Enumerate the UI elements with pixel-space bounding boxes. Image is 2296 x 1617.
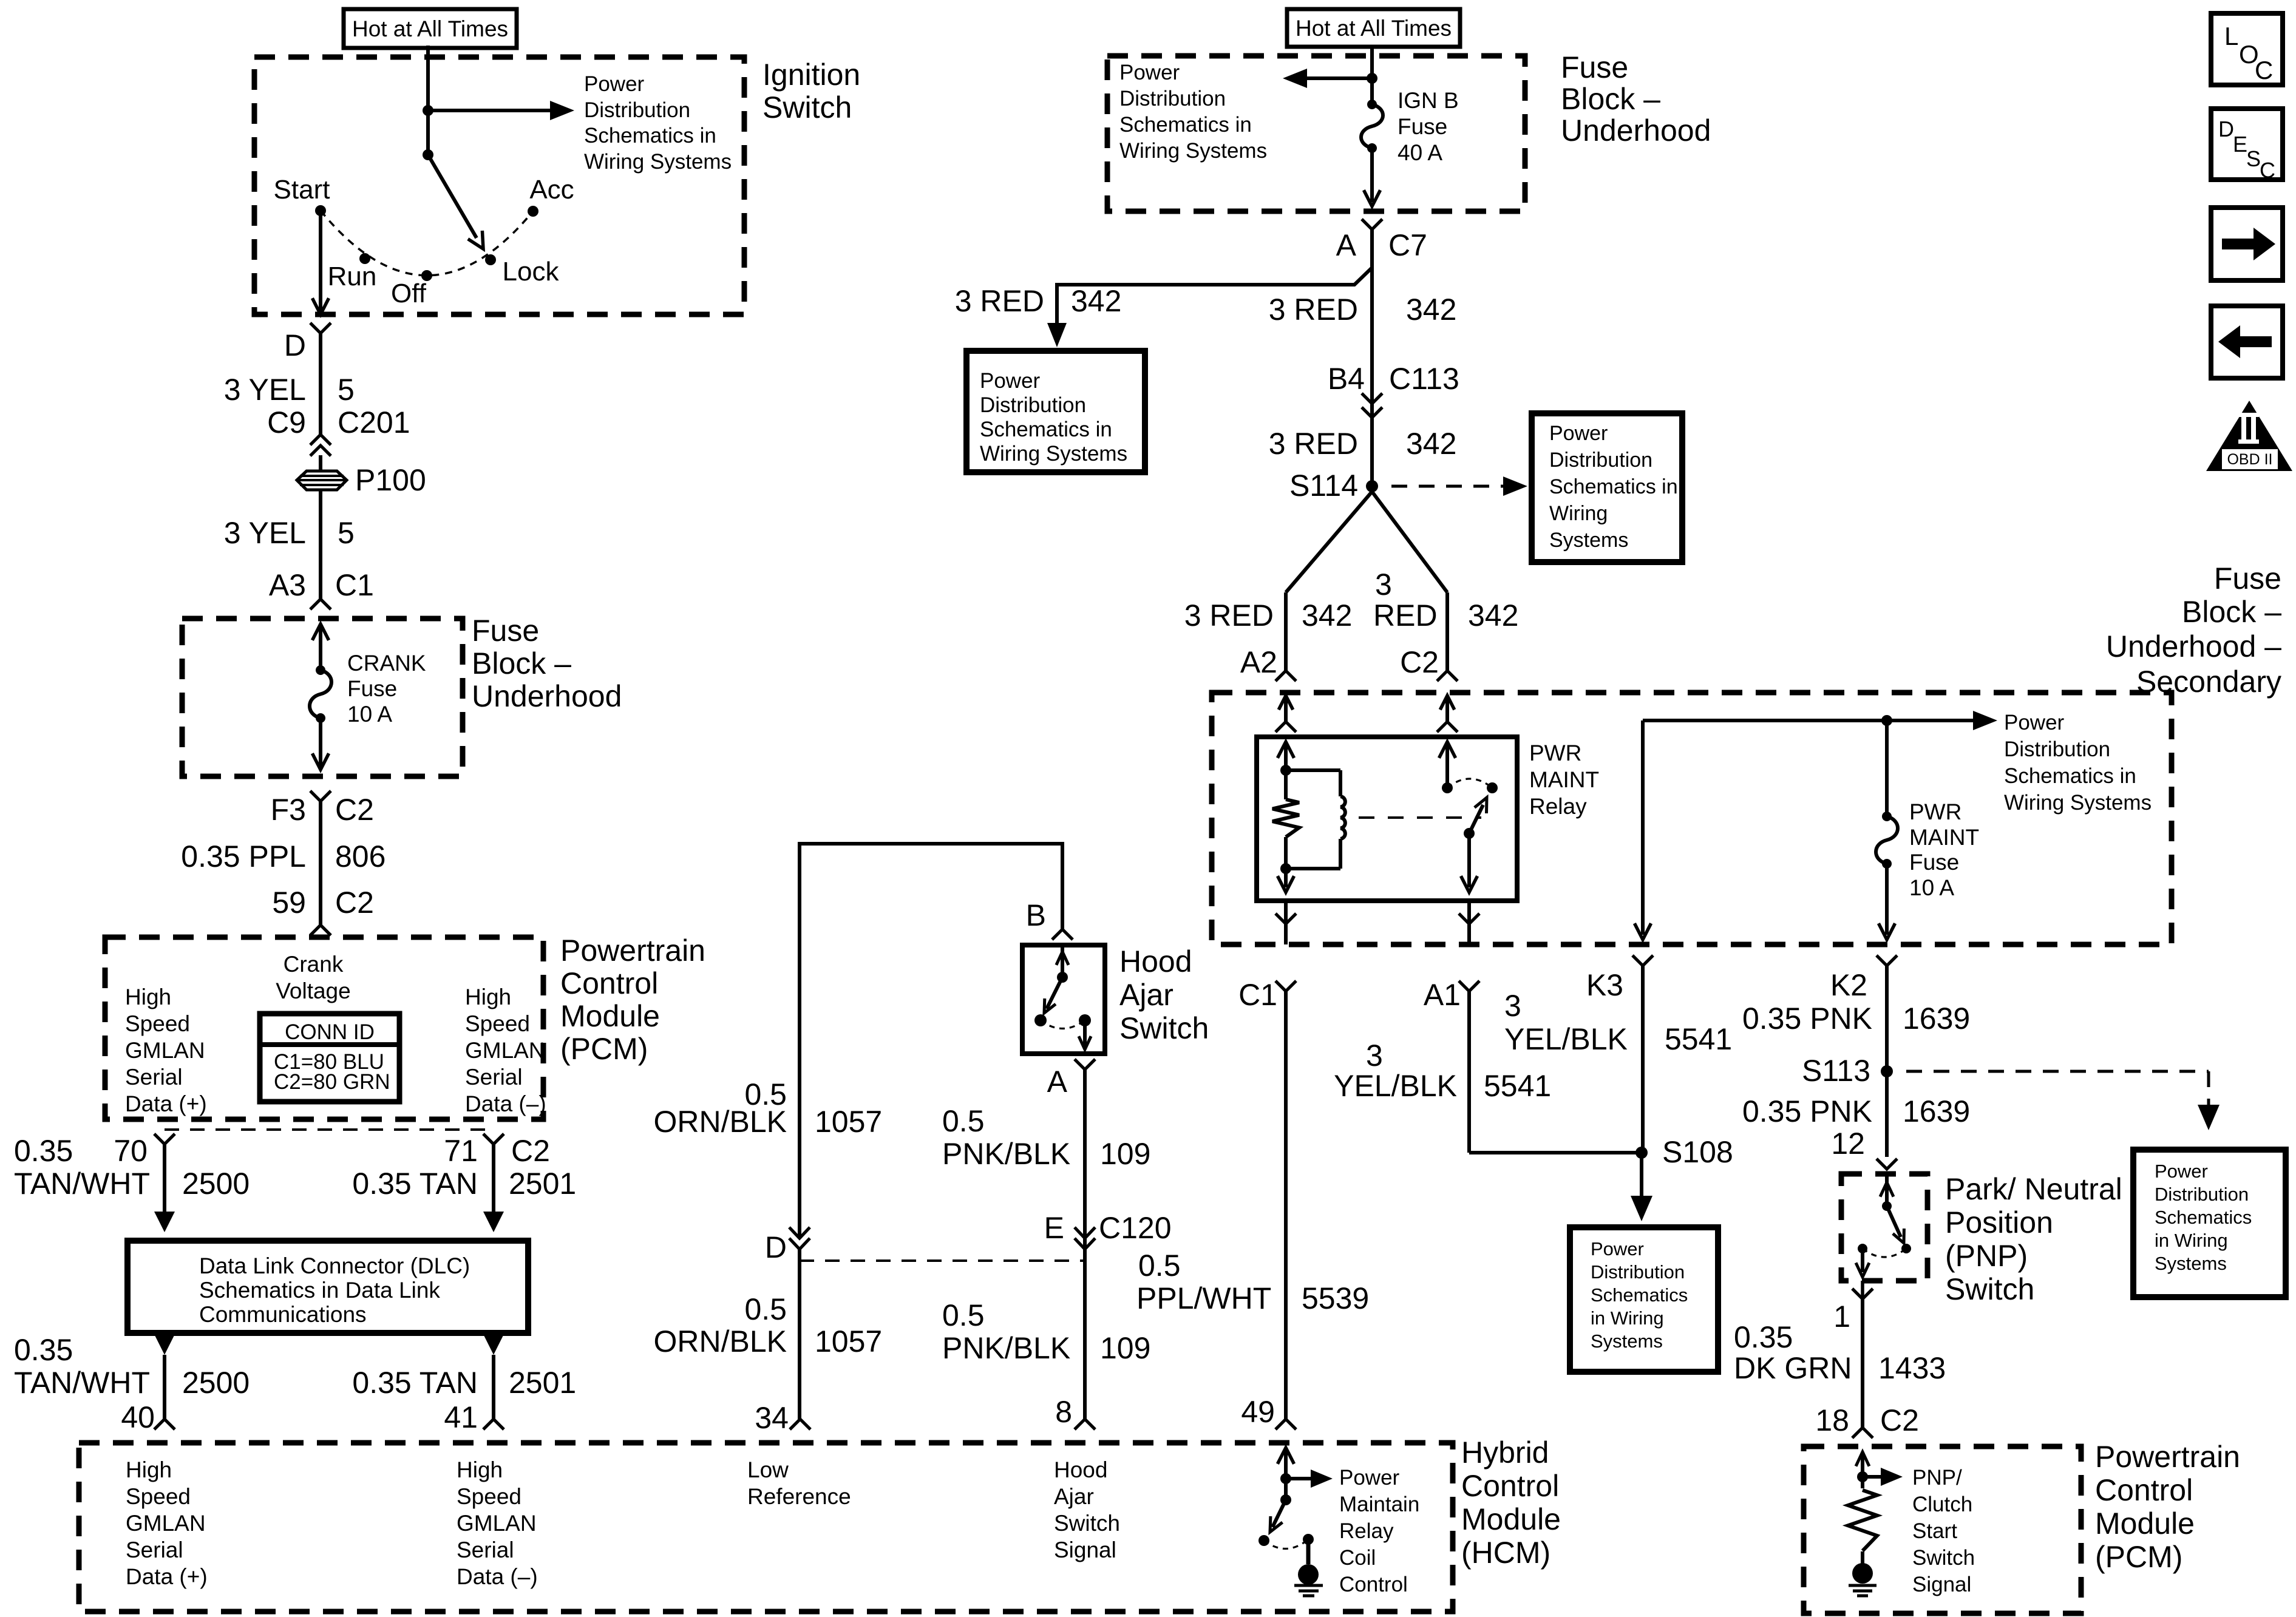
svg-text:(HCM): (HCM) <box>1461 1536 1550 1570</box>
svg-text:Powertrain: Powertrain <box>2095 1440 2240 1474</box>
svg-text:Serial: Serial <box>457 1537 514 1562</box>
wire: C201 to P100 <box>319 455 322 471</box>
svg-text:109: 109 <box>1100 1331 1150 1365</box>
svg-text:41: 41 <box>444 1400 478 1434</box>
svg-text:Underhood –: Underhood – <box>2106 629 2281 663</box>
svg-text:Distribution: Distribution <box>1119 87 1226 110</box>
HCM internal: power maintain relay coil control <box>1277 1448 1333 1500</box>
svg-text:5: 5 <box>338 373 355 407</box>
arrow to power distribution (secondary) <box>1887 719 1973 722</box>
Fuse Block - Underhood - Secondary dashed box <box>1212 693 2172 944</box>
svg-text:Hood: Hood <box>1119 944 1192 978</box>
svg-text:TAN/WHT: TAN/WHT <box>14 1167 150 1201</box>
svg-text:0.35: 0.35 <box>1734 1320 1793 1354</box>
svg-text:Block –: Block – <box>472 646 571 680</box>
svg-text:Run: Run <box>328 262 377 291</box>
Park/Neutral Position switch dashed box <box>1841 1174 1927 1281</box>
svg-text:0.35: 0.35 <box>14 1333 73 1367</box>
Data Link Connector (DLC) box <box>127 1241 528 1333</box>
Ignition Switch module dashed box <box>254 57 744 314</box>
wire: DLC to HCM 40 (0.35 TAN/WHT 2500) <box>154 1334 175 1355</box>
svg-text:ORN/BLK: ORN/BLK <box>653 1105 787 1139</box>
relay switch dashed throw arc <box>1447 779 1492 788</box>
svg-text:A1: A1 <box>1424 978 1461 1012</box>
svg-text:Distribution: Distribution <box>2004 737 2110 761</box>
PNP output arrow <box>1861 1249 1864 1272</box>
ground (HCM) <box>1294 1564 1323 1596</box>
svg-text:L: L <box>2224 22 2238 50</box>
svg-text:PWR: PWR <box>1529 741 1581 765</box>
box: Power Distribution Schematics in Wiring Systems (S114) <box>1532 413 1682 562</box>
svg-text:Park/ Neutral: Park/ Neutral <box>1945 1172 2122 1206</box>
relay output chevrons <box>1275 914 1296 924</box>
svg-text:Data (–): Data (–) <box>457 1564 538 1589</box>
PCM internal: PNP clutch start switch signal <box>1856 1452 1903 1488</box>
wire into CRANK fuse <box>312 624 328 640</box>
Fuse Block - Underhood dashed box (top middle) <box>1107 56 1525 211</box>
svg-text:Distribution: Distribution <box>1591 1261 1685 1283</box>
svg-text:Fuse: Fuse <box>2214 561 2281 595</box>
svg-text:C7: C7 <box>1388 228 1427 262</box>
svg-text:Ajar: Ajar <box>1119 978 1173 1012</box>
svg-text:Schematics in: Schematics in <box>980 418 1112 441</box>
svg-text:DK GRN: DK GRN <box>1734 1351 1852 1385</box>
arrow S108 to power distribution box <box>1640 1153 1643 1199</box>
svg-text:A: A <box>1336 228 1357 262</box>
svg-text:Switch: Switch <box>1119 1011 1209 1045</box>
svg-text:Start: Start <box>1912 1519 1957 1543</box>
relay switch fixed contact <box>1442 782 1453 793</box>
svg-text:12: 12 <box>1831 1127 1865 1161</box>
hood ajar switch internals <box>1034 947 1091 1049</box>
splice S108 <box>1635 1147 1648 1159</box>
relay coil output arrow <box>1284 869 1288 887</box>
svg-text:1639: 1639 <box>1903 1002 1970 1036</box>
svg-text:71: 71 <box>444 1134 478 1168</box>
svg-text:0.35 TAN: 0.35 TAN <box>352 1366 478 1400</box>
ignition switch wiper arrow to Lock <box>428 155 477 238</box>
svg-text:Schematics: Schematics <box>2155 1207 2252 1228</box>
svg-text:Power: Power <box>2004 711 2065 734</box>
svg-text:Fuse: Fuse <box>1398 114 1447 139</box>
svg-text:Schematics: Schematics <box>1591 1284 1688 1306</box>
next-page arrow icon <box>2211 208 2283 280</box>
svg-text:40: 40 <box>121 1400 155 1434</box>
svg-text:806: 806 <box>335 839 385 873</box>
svg-text:0.5: 0.5 <box>942 1298 985 1332</box>
box: Power Distribution Schematics in Wiring Systems (S108) <box>1570 1227 1718 1372</box>
svg-text:Voltage: Voltage <box>276 978 350 1003</box>
wire: ignition D to C201 (3 YEL 5) <box>319 333 322 435</box>
svg-text:High: High <box>465 985 511 1009</box>
connector C120 dashed line <box>800 1259 1085 1262</box>
pin chevrons into secondary fuse block <box>1275 671 1296 681</box>
wire PNP to PCM 18 (0.35 DK GRN 1433) <box>1861 1299 1864 1428</box>
svg-text:Underhood: Underhood <box>1561 114 1711 147</box>
box: Power Distribution Schematics in Wiring Systems (branch) <box>966 351 1145 472</box>
svg-text:Schematics in Data Link: Schematics in Data Link <box>199 1278 440 1303</box>
svg-text:Data (+): Data (+) <box>125 1091 207 1116</box>
pin chevron below PNP (pin 1) <box>1852 1289 1873 1299</box>
pin B chevron <box>1052 929 1073 940</box>
pin chevron into fuse block <box>310 599 331 609</box>
svg-text:Secondary: Secondary <box>2136 665 2281 699</box>
svg-text:0.35 PPL: 0.35 PPL <box>181 839 306 873</box>
svg-text:1: 1 <box>1833 1300 1850 1334</box>
svg-text:C2: C2 <box>511 1134 550 1168</box>
Powertrain Control Module dashed box (left) <box>105 937 543 1119</box>
wire K2 to S113 (0.35 PNK 1639) <box>1885 966 1889 1157</box>
dashed branch S113 to power distribution <box>1906 1070 2209 1073</box>
svg-text:(PNP): (PNP) <box>1945 1239 2028 1273</box>
svg-text:D: D <box>765 1230 787 1264</box>
pin chevron below fuse block <box>310 791 331 801</box>
connector C201 double chevron <box>310 435 331 445</box>
node: PWR MAINT fuse junction <box>1881 715 1892 726</box>
svg-text:Switch: Switch <box>1945 1272 2034 1306</box>
wire A1 to S108 (3 YEL/BLK 5541) <box>1467 991 1471 1153</box>
grommet P100 <box>297 471 347 490</box>
svg-text:Signal: Signal <box>1912 1573 1971 1596</box>
svg-text:PPL/WHT: PPL/WHT <box>1136 1281 1271 1315</box>
svg-text:0.35 PNK: 0.35 PNK <box>1742 1002 1872 1036</box>
relay coil input arrow (A2 side) <box>1277 742 1294 758</box>
svg-text:Ignition: Ignition <box>763 58 860 92</box>
svg-text:Schematics in: Schematics in <box>1549 475 1678 498</box>
svg-text:Systems: Systems <box>1549 529 1628 552</box>
svg-text:2501: 2501 <box>509 1366 576 1400</box>
svg-text:GMLAN: GMLAN <box>126 1511 206 1536</box>
splice S113 <box>1881 1065 1893 1077</box>
svg-text:C1: C1 <box>335 568 374 602</box>
pin chevron into PCM (18) <box>1852 1428 1873 1438</box>
svg-text:S113: S113 <box>1802 1054 1870 1088</box>
svg-text:CRANK: CRANK <box>347 651 426 676</box>
svg-text:D: D <box>2218 117 2234 141</box>
wire: PCM 71 to DLC (0.35 TAN 2501) <box>492 1144 495 1214</box>
arrow to Power Distribution Schematics (ignition) <box>428 109 551 112</box>
svg-text:3: 3 <box>1366 1039 1383 1073</box>
svg-text:ORN/BLK: ORN/BLK <box>653 1324 787 1358</box>
svg-text:Power: Power <box>1591 1238 1644 1259</box>
svg-text:Wiring: Wiring <box>1549 502 1608 525</box>
svg-text:Control: Control <box>560 966 658 1000</box>
svg-text:Maintain: Maintain <box>1339 1493 1419 1516</box>
svg-text:3 YEL: 3 YEL <box>224 516 306 550</box>
svg-text:5539: 5539 <box>1302 1281 1369 1315</box>
svg-text:Wiring Systems: Wiring Systems <box>2004 791 2152 815</box>
svg-text:Hood: Hood <box>1054 1457 1107 1482</box>
svg-text:59: 59 <box>272 886 306 920</box>
svg-text:Power: Power <box>1339 1466 1400 1490</box>
svg-text:2500: 2500 <box>182 1366 250 1400</box>
svg-text:A2: A2 <box>1240 645 1277 679</box>
PNP pivot <box>1882 1201 1892 1211</box>
wire: PCM 70 to DLC (0.35 TAN/WHT 2500) <box>163 1144 166 1214</box>
svg-text:PNP/: PNP/ <box>1912 1466 1962 1490</box>
svg-text:C: C <box>2260 158 2275 183</box>
svg-text:High: High <box>126 1457 172 1482</box>
svg-text:A3: A3 <box>269 568 306 602</box>
svg-text:Serial: Serial <box>125 1065 183 1090</box>
svg-text:P100: P100 <box>355 463 426 497</box>
pin D double chevron <box>789 1227 810 1238</box>
svg-text:Acc: Acc <box>529 175 574 205</box>
wire: hot feed into IGN B fuse <box>1370 46 1374 104</box>
svg-text:S: S <box>2246 146 2261 171</box>
HCM internal switch <box>1258 1494 1314 1564</box>
ignition switch position dots <box>315 205 326 216</box>
wire: P100 to fuse block (3 YEL 5) <box>319 490 322 599</box>
pin D chevron <box>310 323 331 333</box>
Powertrain Control Module dashed box (right) <box>1804 1446 2081 1613</box>
svg-text:342: 342 <box>1302 598 1352 632</box>
svg-text:Underhood: Underhood <box>472 679 622 713</box>
svg-text:3 YEL: 3 YEL <box>224 373 306 407</box>
secondary box internal horizontal bus <box>1643 719 1887 722</box>
svg-text:Speed: Speed <box>126 1484 191 1509</box>
svg-text:Speed: Speed <box>457 1484 521 1509</box>
svg-text:PWR: PWR <box>1909 799 1961 824</box>
svg-text:Control: Control <box>1339 1573 1408 1596</box>
dashed detent arc <box>321 211 533 276</box>
prev-page arrow icon <box>2211 306 2283 378</box>
svg-text:B: B <box>1026 898 1046 932</box>
svg-text:Switch: Switch <box>1912 1546 1975 1570</box>
Fuse Block - Underhood dashed box (left) <box>182 619 463 776</box>
svg-text:S114: S114 <box>1289 469 1358 503</box>
pin chevrons below secondary box (C1 A1 K3 K2) <box>1275 981 1296 991</box>
box: Power Distribution Schematics in Wiring Systems (S113) <box>2133 1150 2286 1297</box>
svg-text:Switch: Switch <box>1054 1511 1120 1536</box>
svg-text:Ajar: Ajar <box>1054 1484 1094 1509</box>
svg-text:Data (+): Data (+) <box>126 1564 208 1589</box>
wire out of IGN B fuse <box>1370 148 1374 202</box>
svg-text:C201: C201 <box>338 405 410 439</box>
svg-text:K3: K3 <box>1586 968 1623 1002</box>
node: feed junction <box>1367 73 1377 84</box>
svg-text:109: 109 <box>1100 1137 1150 1171</box>
wire out of CRANK fuse <box>319 718 322 766</box>
svg-text:5541: 5541 <box>1665 1022 1732 1056</box>
svg-text:34: 34 <box>755 1401 789 1435</box>
wire hood ajar A to HCM 8 (0.5 PNK/BLK 109) <box>1083 1070 1087 1419</box>
svg-text:B4: B4 <box>1328 362 1365 396</box>
svg-text:(PCM): (PCM) <box>2095 1540 2182 1574</box>
svg-text:Reference: Reference <box>747 1484 851 1509</box>
svg-text:RED: RED <box>1373 598 1438 632</box>
svg-text:Block –: Block – <box>1561 82 1660 116</box>
svg-text:Distribution: Distribution <box>980 393 1086 417</box>
relay switch arm <box>1469 805 1483 833</box>
svg-text:C9: C9 <box>267 405 306 439</box>
svg-text:8: 8 <box>1055 1395 1072 1429</box>
svg-text:Power: Power <box>980 369 1041 393</box>
svg-text:Power: Power <box>584 72 645 96</box>
svg-text:Clutch: Clutch <box>1912 1493 1972 1516</box>
svg-text:Systems: Systems <box>1591 1331 1663 1352</box>
svg-text:Powertrain: Powertrain <box>560 934 705 968</box>
svg-text:Coil: Coil <box>1339 1546 1376 1570</box>
svg-text:1433: 1433 <box>1878 1351 1946 1385</box>
svg-text:Module: Module <box>2095 1507 2195 1541</box>
svg-text:70: 70 <box>114 1134 148 1168</box>
svg-text:2501: 2501 <box>509 1167 576 1201</box>
DESC icon box <box>2211 109 2283 183</box>
svg-text:OBD II: OBD II <box>2227 451 2272 468</box>
svg-text:Hot at All Times: Hot at All Times <box>352 16 508 41</box>
svg-text:IGN B: IGN B <box>1398 88 1459 113</box>
relay coil node top <box>1280 765 1291 776</box>
svg-text:Wiring Systems: Wiring Systems <box>980 442 1127 466</box>
relay coil (inductor) <box>1286 768 1340 772</box>
svg-text:Power: Power <box>1549 422 1608 445</box>
svg-text:MAINT: MAINT <box>1529 767 1599 792</box>
svg-text:Start: Start <box>274 175 330 205</box>
svg-text:0.35 TAN: 0.35 TAN <box>352 1167 478 1201</box>
svg-text:Wiring Systems: Wiring Systems <box>1119 139 1267 163</box>
wire K3 to S108 (3 YEL/BLK 5541) <box>1641 966 1645 1153</box>
svg-text:Schematics in: Schematics in <box>1119 113 1252 137</box>
Hood Ajar Switch box <box>1022 945 1105 1054</box>
svg-text:Hybrid: Hybrid <box>1461 1436 1549 1470</box>
svg-text:40 A: 40 A <box>1398 140 1442 165</box>
svg-text:C2=80 GRN: C2=80 GRN <box>274 1070 390 1094</box>
svg-text:1057: 1057 <box>815 1324 882 1358</box>
pin arrows inside secondary box <box>1279 696 1293 710</box>
wire: DLC to HCM 41 (0.35 TAN 2501) <box>483 1334 504 1355</box>
svg-text:C2: C2 <box>1880 1403 1919 1437</box>
svg-text:in Wiring: in Wiring <box>1591 1307 1664 1329</box>
svg-text:0.5: 0.5 <box>1138 1249 1181 1283</box>
svg-text:342: 342 <box>1071 284 1121 318</box>
fuse CRANK 10A <box>316 665 325 675</box>
svg-text:342: 342 <box>1406 293 1456 327</box>
svg-text:Relay: Relay <box>1529 794 1587 819</box>
svg-text:3: 3 <box>1375 568 1392 602</box>
svg-text:GMLAN: GMLAN <box>457 1511 537 1536</box>
svg-text:Data (–): Data (–) <box>465 1091 546 1116</box>
svg-text:0.35: 0.35 <box>14 1134 73 1168</box>
ground (PCM) <box>1849 1563 1877 1596</box>
svg-text:D: D <box>284 328 306 362</box>
svg-text:GMLAN: GMLAN <box>125 1038 205 1063</box>
svg-text:TAN/WHT: TAN/WHT <box>14 1366 150 1400</box>
svg-text:Speed: Speed <box>465 1011 530 1036</box>
svg-text:High: High <box>125 985 171 1009</box>
svg-text:Fuse: Fuse <box>472 614 539 648</box>
svg-text:Relay: Relay <box>1339 1519 1394 1543</box>
svg-text:Schematics in: Schematics in <box>584 124 716 147</box>
svg-text:Switch: Switch <box>763 90 852 124</box>
svg-text:18: 18 <box>1815 1403 1849 1437</box>
svg-text:C2: C2 <box>1400 645 1439 679</box>
Hybrid Control Module dashed box <box>79 1443 1453 1612</box>
svg-text:Lock: Lock <box>503 257 560 286</box>
node: ignition feed junction <box>423 105 433 116</box>
svg-text:Fuse: Fuse <box>1561 50 1628 84</box>
svg-text:0.5: 0.5 <box>744 1292 787 1326</box>
wire out of PWR MAINT fuse <box>1885 864 1889 935</box>
svg-text:Data Link Connector (DLC): Data Link Connector (DLC) <box>199 1253 470 1278</box>
svg-text:C2: C2 <box>335 793 374 827</box>
splice S114 <box>1366 480 1378 492</box>
PNP dashed throw arc <box>1863 1249 1906 1257</box>
relay switch output arrow <box>1467 833 1471 887</box>
wire: Start contact down to pin D <box>319 211 322 311</box>
wire: hood ajar switch B to HCM 34 (0.5 ORN/BLK 1057) <box>800 844 1062 1238</box>
node: wiper pivot <box>423 149 433 160</box>
svg-text:3 RED: 3 RED <box>1184 598 1274 632</box>
svg-text:C2: C2 <box>335 886 374 920</box>
pin A chevron <box>1075 1059 1095 1070</box>
svg-text:Wiring Systems: Wiring Systems <box>584 150 732 174</box>
svg-text:MAINT: MAINT <box>1909 825 1979 850</box>
svg-text:C120: C120 <box>1099 1211 1172 1245</box>
svg-text:Distribution: Distribution <box>2155 1184 2249 1205</box>
svg-text:F3: F3 <box>271 793 306 827</box>
svg-text:High: High <box>457 1457 503 1482</box>
svg-text:3: 3 <box>1504 989 1521 1023</box>
relay resistor <box>1272 799 1299 837</box>
svg-text:Crank: Crank <box>284 952 344 977</box>
svg-text:2500: 2500 <box>182 1167 250 1201</box>
svg-text:E: E <box>2233 132 2247 157</box>
Hot at All Times box (right) <box>1287 9 1460 47</box>
svg-text:Block –: Block – <box>2182 595 2281 629</box>
svg-text:Power: Power <box>2155 1161 2208 1182</box>
svg-text:C: C <box>2255 56 2273 84</box>
svg-text:5541: 5541 <box>1484 1069 1551 1103</box>
svg-text:3 RED: 3 RED <box>955 284 1044 318</box>
svg-text:C113: C113 <box>1389 362 1459 396</box>
svg-text:1639: 1639 <box>1903 1094 1970 1128</box>
svg-text:3 RED: 3 RED <box>1269 293 1358 327</box>
svg-text:Communications: Communications <box>199 1302 367 1327</box>
svg-text:Serial: Serial <box>465 1065 523 1090</box>
pin chevron into PNP switch <box>1877 1159 1897 1169</box>
branch wire to power distribution (3 RED 342) <box>1057 268 1372 325</box>
PWR MAINT Relay box <box>1257 737 1517 901</box>
svg-text:E: E <box>1044 1211 1064 1245</box>
svg-text:Low: Low <box>747 1457 789 1482</box>
relay link dashed line <box>1359 816 1481 819</box>
svg-text:10 A: 10 A <box>347 702 392 727</box>
svg-text:3 RED: 3 RED <box>1269 427 1358 461</box>
PNP switch arm <box>1887 1206 1901 1237</box>
svg-text:PNK/BLK: PNK/BLK <box>942 1137 1070 1171</box>
svg-text:342: 342 <box>1468 598 1518 632</box>
svg-text:Hot at All Times: Hot at All Times <box>1296 16 1452 41</box>
svg-text:GMLAN: GMLAN <box>465 1038 545 1063</box>
svg-text:0.5: 0.5 <box>942 1104 985 1138</box>
svg-text:in Wiring: in Wiring <box>2155 1230 2228 1251</box>
svg-text:A: A <box>1047 1065 1068 1099</box>
svg-text:Control: Control <box>1461 1469 1559 1503</box>
pin chevrons into HCM (40,41,34,8,49) <box>154 1419 175 1429</box>
PNP internal input arrow <box>1885 1174 1889 1206</box>
svg-text:Serial: Serial <box>126 1537 183 1562</box>
svg-text:Systems: Systems <box>2155 1253 2227 1274</box>
pin E double chevron <box>1075 1227 1095 1238</box>
connector C2 dashed line below PCM <box>165 1128 494 1131</box>
wire C1 to HCM 49 (0.5 PPL/WHT 5539) <box>1284 991 1288 1419</box>
svg-text:Signal: Signal <box>1054 1537 1116 1562</box>
CONN ID table <box>260 1014 399 1102</box>
svg-text:49: 49 <box>1241 1395 1275 1429</box>
svg-text:5: 5 <box>338 516 355 550</box>
PNP contacts <box>1901 1244 1911 1253</box>
